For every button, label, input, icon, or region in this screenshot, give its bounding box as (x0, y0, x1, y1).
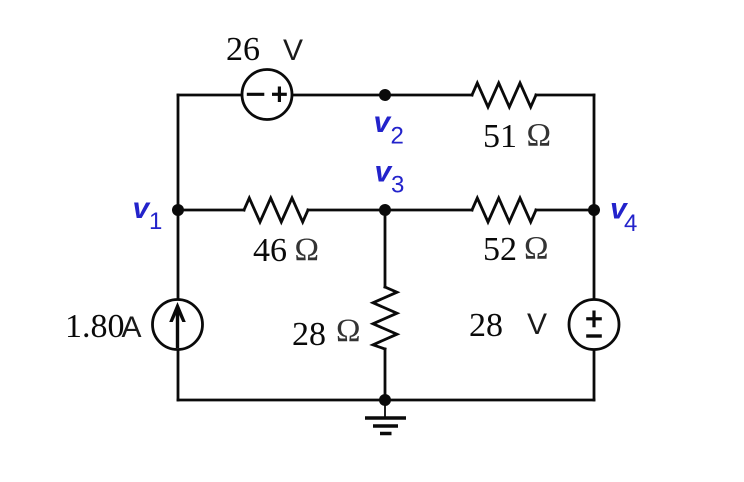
svg-text:Ω: Ω (336, 313, 361, 349)
wire right vertical (593, 95, 596, 400)
svg-text:51: 51 (483, 118, 517, 155)
ground node dot (379, 394, 391, 406)
svg-text:52: 52 (483, 231, 517, 268)
svg-text:Ω: Ω (524, 231, 549, 267)
svg-text:1: 1 (149, 208, 162, 235)
resistor R1 51ohm zigzag (472, 83, 536, 107)
svg-text:A: A (122, 311, 142, 344)
svg-text:2: 2 (391, 123, 404, 150)
svg-text:1.80: 1.80 (65, 308, 125, 345)
voltage source V1 26V circle (242, 70, 292, 120)
current source I1 circle (153, 300, 203, 350)
svg-text:46: 46 (253, 232, 287, 269)
svg-text:Ω: Ω (527, 118, 552, 154)
resistor R2 46ohm zigzag (244, 198, 308, 222)
wire middle center (308, 209, 472, 212)
svg-text:V: V (527, 308, 547, 341)
wire center vertical lower (384, 349, 387, 400)
svg-text:3: 3 (391, 172, 404, 199)
voltage source V2 28V circle (569, 300, 619, 350)
wire bottom (178, 399, 594, 402)
ground symbol (365, 400, 406, 434)
resistor R3 52ohm zigzag (472, 198, 536, 222)
wire middle right (536, 209, 594, 212)
resistor R4 28ohm vertical zigzag (373, 287, 397, 349)
svg-text:Ω: Ω (295, 232, 320, 268)
wire middle left (178, 209, 244, 212)
svg-text:28: 28 (292, 316, 326, 353)
node v1 dot (172, 204, 184, 216)
node v4 dot (588, 204, 600, 216)
wire top left segment (178, 94, 472, 97)
svg-text:28: 28 (469, 307, 503, 344)
node v2 dot (379, 89, 391, 101)
wire top right segment (536, 94, 594, 97)
voltage source V2 plus sign (586, 311, 602, 328)
current source I1 arrow (169, 302, 186, 348)
voltage source V1 plus sign (272, 87, 287, 103)
svg-text:26: 26 (226, 31, 260, 68)
voltage source V2 minus sign (586, 334, 602, 337)
svg-text:4: 4 (624, 210, 637, 237)
voltage source V1 minus sign (247, 93, 264, 96)
wire left vertical (177, 95, 180, 400)
svg-text:V: V (283, 34, 303, 67)
wire center vertical upper (384, 210, 387, 287)
node v3 dot (379, 204, 391, 216)
